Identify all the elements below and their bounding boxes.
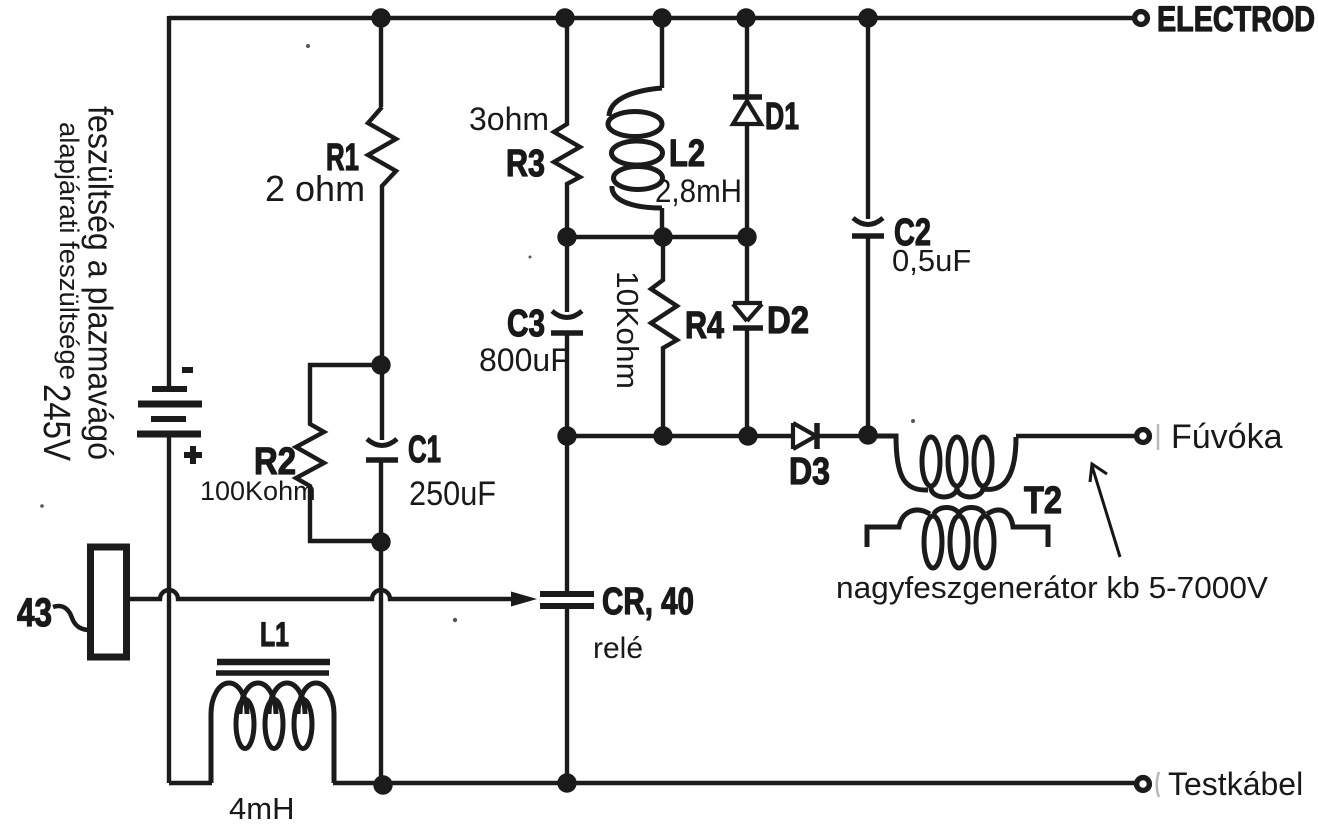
svg-text:43: 43	[17, 591, 52, 635]
svg-text:relé: relé	[593, 632, 643, 665]
svg-text:feszültség a plazmavágó: feszültség a plazmavágó	[81, 106, 119, 460]
svg-text:3ohm: 3ohm	[469, 101, 549, 137]
svg-text:C3: C3	[507, 303, 545, 345]
svg-text:245V: 245V	[35, 384, 77, 462]
svg-text:nagyfeszgenerátor kb 5-7000V: nagyfeszgenerátor kb 5-7000V	[836, 570, 1268, 605]
svg-text:Testkábel: Testkábel	[1168, 766, 1303, 802]
svg-text:10Kohm: 10Kohm	[610, 271, 645, 389]
svg-text:R4: R4	[685, 305, 724, 347]
svg-text:4mH: 4mH	[229, 791, 294, 826]
svg-text:L2: L2	[669, 133, 705, 175]
svg-text:2,8mH: 2,8mH	[655, 173, 742, 209]
svg-text:R3: R3	[506, 143, 545, 185]
svg-text:alapjárati feszültsége: alapjárati feszültsége	[54, 122, 84, 380]
svg-text:CR, 40: CR, 40	[602, 581, 694, 623]
svg-text:D3: D3	[789, 451, 830, 493]
svg-text:L1: L1	[260, 616, 289, 654]
svg-text:2 ohm: 2 ohm	[265, 168, 365, 209]
svg-text:Fúvóka: Fúvóka	[1171, 418, 1283, 456]
svg-text:T2: T2	[1024, 480, 1062, 522]
svg-text:ELECTROD: ELECTROD	[1157, 0, 1315, 39]
svg-text:0,5uF: 0,5uF	[892, 243, 971, 278]
svg-text:D2: D2	[767, 300, 809, 342]
svg-text:100Kohm: 100Kohm	[200, 476, 316, 506]
svg-text:250uF: 250uF	[409, 475, 496, 513]
svg-text:C1: C1	[408, 429, 441, 471]
svg-text:800uF: 800uF	[479, 342, 570, 378]
svg-text:D1: D1	[765, 96, 799, 138]
